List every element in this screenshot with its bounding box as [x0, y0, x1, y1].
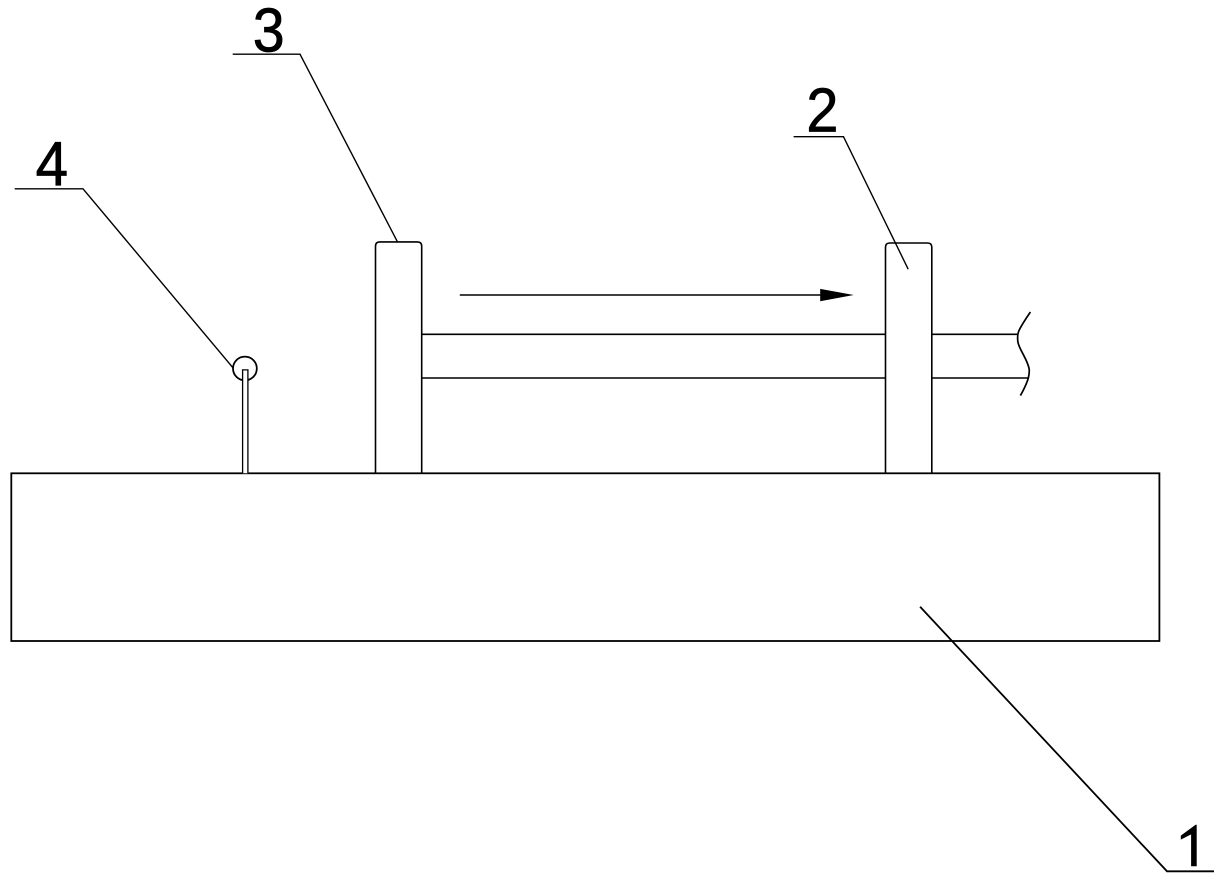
label 1	[1181, 825, 1197, 867]
post 3 (left vertical support)	[376, 242, 422, 473]
svg-text:4: 4	[36, 130, 68, 199]
stem of sensor 4	[243, 370, 248, 473]
arrow head	[820, 289, 854, 301]
leader line 4	[15, 189, 234, 368]
wire: shaft bottom line between posts and to break	[422, 377, 1029, 379]
svg-text:2: 2	[806, 75, 838, 144]
arrow (motion direction) line	[460, 294, 823, 296]
leader line 3	[233, 54, 398, 242]
post 2 (right vertical support)	[886, 243, 932, 473]
wire: shaft top line between posts and to break	[422, 333, 1018, 335]
leader line 1	[920, 607, 1214, 872]
svg-text:3: 3	[253, 0, 285, 65]
leader line 2	[794, 137, 909, 270]
break squiggle at shaft right end	[1018, 312, 1031, 396]
base plate 1	[11, 473, 1159, 641]
sensor circle 4	[233, 357, 257, 381]
